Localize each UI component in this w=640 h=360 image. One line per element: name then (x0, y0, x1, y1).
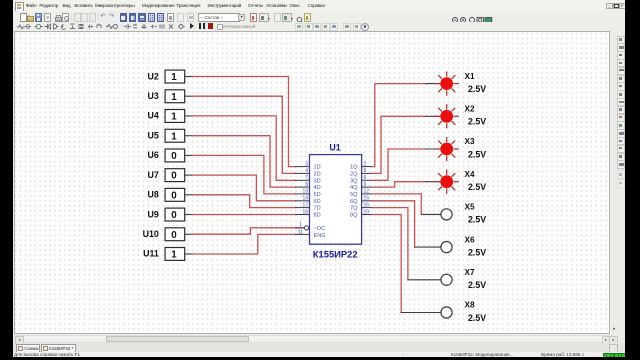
U1 pin 6D (14) (296, 196, 321, 205)
svg-text:0: 0 (171, 190, 177, 201)
svg-text:4: 4 (305, 168, 308, 174)
wire 6Q to X6 (373, 201, 415, 247)
U1 pin 8Q (19) (350, 209, 372, 218)
svg-text:6Q: 6Q (350, 199, 358, 205)
svg-text:К155ИР22: К155ИР22 (313, 249, 358, 260)
svg-text:6: 6 (364, 175, 367, 181)
U1 pin 1D (3) (296, 161, 321, 170)
svg-text:U11: U11 (143, 249, 159, 259)
svg-text:7: 7 (305, 175, 308, 181)
probe X7 (off) (408, 268, 486, 290)
digital constant U3 (148, 90, 193, 103)
svg-text:16: 16 (364, 202, 370, 208)
digital constant U6 (148, 149, 193, 162)
svg-text:1: 1 (299, 222, 302, 228)
svg-text:11: 11 (298, 229, 303, 235)
wire U6 to 5D (193, 155, 296, 194)
svg-text:U1: U1 (329, 143, 340, 153)
wire U11 to ENG (193, 234, 296, 254)
wire U7 to 6D (193, 175, 296, 201)
svg-text:U5: U5 (148, 131, 159, 141)
U1 pin 7Q (16) (350, 202, 372, 211)
svg-text:6D: 6D (314, 199, 321, 205)
svg-text:5D: 5D (314, 192, 321, 198)
svg-text:9: 9 (364, 182, 367, 188)
wire U10 to ~OC (193, 228, 305, 234)
svg-text:7Q: 7Q (350, 206, 358, 212)
svg-text:U3: U3 (148, 91, 159, 101)
wire U3 to 2D (193, 96, 296, 173)
svg-text:1: 1 (171, 112, 177, 123)
svg-text:5Q: 5Q (350, 192, 358, 198)
wire 5Q to X5 (373, 194, 422, 215)
wire 4Q to X4 (373, 182, 427, 187)
U1 pin 2D (4) (296, 168, 321, 177)
svg-text:1: 1 (171, 92, 177, 103)
wire 3Q to X3 (373, 149, 427, 180)
svg-text:U8: U8 (148, 190, 159, 200)
svg-text:2.5V: 2.5V (468, 149, 486, 159)
svg-text:8: 8 (305, 182, 308, 188)
svg-text:18: 18 (302, 209, 308, 215)
svg-text:2.5V: 2.5V (468, 84, 486, 94)
U1 pin 3D (7) (296, 175, 321, 184)
svg-text:15: 15 (364, 196, 370, 202)
probe X1 (lit) (426, 72, 486, 95)
svg-text:3Q: 3Q (350, 178, 358, 184)
wire U8 to 7D (193, 195, 296, 208)
svg-text:1: 1 (171, 131, 177, 142)
wire 2Q to X2 (373, 116, 427, 173)
svg-text:14: 14 (302, 196, 308, 202)
U1 pin ENG (11) (296, 229, 326, 239)
svg-text:U10: U10 (143, 229, 159, 239)
svg-text:ENG: ENG (314, 233, 326, 239)
svg-text:1: 1 (171, 250, 177, 261)
svg-text:3D: 3D (314, 178, 321, 184)
svg-text:2.5V: 2.5V (468, 182, 486, 192)
wire 1Q to X1 (373, 84, 427, 167)
svg-text:X5: X5 (465, 203, 475, 212)
digital constant U8 (148, 188, 193, 201)
svg-text:12: 12 (364, 189, 370, 195)
U1 pin ~OC (1) with inversion bubble (296, 222, 326, 232)
svg-text:2.5V: 2.5V (468, 117, 486, 127)
wire U2 to 1D (193, 77, 296, 167)
U1 pin 1Q (2) (350, 161, 372, 170)
svg-text:~OC: ~OC (314, 226, 326, 232)
probe X4 (lit) (426, 170, 486, 193)
svg-text:13: 13 (302, 189, 308, 195)
digital constant U7 (148, 169, 193, 182)
U1 pin 5D (13) (296, 189, 321, 198)
digital constant U9 (148, 208, 193, 221)
probe X2 (lit) (426, 105, 486, 128)
svg-text:1Q: 1Q (350, 165, 358, 171)
U1 pin 6Q (15) (350, 196, 372, 205)
svg-text:0: 0 (171, 230, 177, 241)
svg-text:U7: U7 (148, 170, 159, 180)
svg-text:X4: X4 (465, 170, 475, 179)
svg-text:X2: X2 (465, 105, 475, 114)
U1 pin 4D (8) (296, 182, 321, 191)
svg-text:U2: U2 (148, 71, 159, 81)
svg-text:0: 0 (171, 151, 177, 162)
U1 pin 7D (17) (296, 202, 321, 211)
U1 pin 4Q (9) (350, 182, 372, 191)
wire 8Q to X8 (373, 215, 402, 313)
svg-text:1D: 1D (314, 165, 321, 171)
probe X5 (off) (421, 203, 486, 225)
U1 pin 2Q (5) (350, 168, 372, 177)
wire 7Q to X7 (373, 208, 408, 280)
svg-text:X6: X6 (465, 235, 475, 244)
wire U5 to 4D (193, 136, 296, 187)
svg-text:4Q: 4Q (350, 185, 358, 191)
U1 pin 5Q (12) (350, 189, 372, 198)
op-amp U1 body К155ИР22 (310, 143, 362, 260)
svg-text:X7: X7 (465, 268, 475, 277)
svg-text:7D: 7D (314, 206, 321, 212)
U1 pin 8D (18) (296, 209, 321, 218)
svg-text:X1: X1 (465, 72, 475, 81)
svg-text:2.5V: 2.5V (468, 280, 486, 290)
probe X6 (off) (415, 235, 487, 257)
svg-text:17: 17 (302, 202, 308, 208)
svg-text:1: 1 (171, 72, 177, 83)
U1 pin 3Q (6) (350, 175, 372, 184)
wire U9 to 8D (193, 214, 296, 216)
svg-text:8Q: 8Q (350, 213, 358, 219)
digital constant U5 (148, 129, 193, 142)
wire U4 to 3D (193, 116, 296, 180)
svg-text:X8: X8 (465, 301, 475, 310)
svg-text:X3: X3 (465, 137, 475, 146)
digital constant U11 (143, 248, 192, 261)
svg-text:U6: U6 (148, 150, 159, 160)
svg-text:4D: 4D (314, 185, 321, 191)
svg-text:2D: 2D (314, 171, 321, 177)
svg-text:19: 19 (364, 209, 370, 215)
digital constant U4 (148, 110, 193, 123)
svg-text:0: 0 (171, 210, 177, 221)
svg-text:5: 5 (364, 168, 367, 174)
svg-text:2Q: 2Q (350, 171, 358, 177)
probe X3 (lit) (426, 137, 486, 160)
svg-text:U4: U4 (148, 111, 159, 121)
svg-text:2.5V: 2.5V (468, 313, 486, 323)
svg-text:3: 3 (305, 161, 308, 167)
svg-text:2.5V: 2.5V (468, 247, 486, 257)
svg-text:2.5V: 2.5V (468, 215, 486, 225)
digital constant U10 (143, 228, 193, 241)
svg-text:2: 2 (364, 161, 367, 167)
svg-text:U9: U9 (148, 209, 159, 219)
digital constant U2 (148, 70, 193, 83)
probe X8 (off) (401, 301, 486, 323)
svg-text:0: 0 (171, 171, 177, 182)
svg-text:8D: 8D (314, 213, 321, 219)
